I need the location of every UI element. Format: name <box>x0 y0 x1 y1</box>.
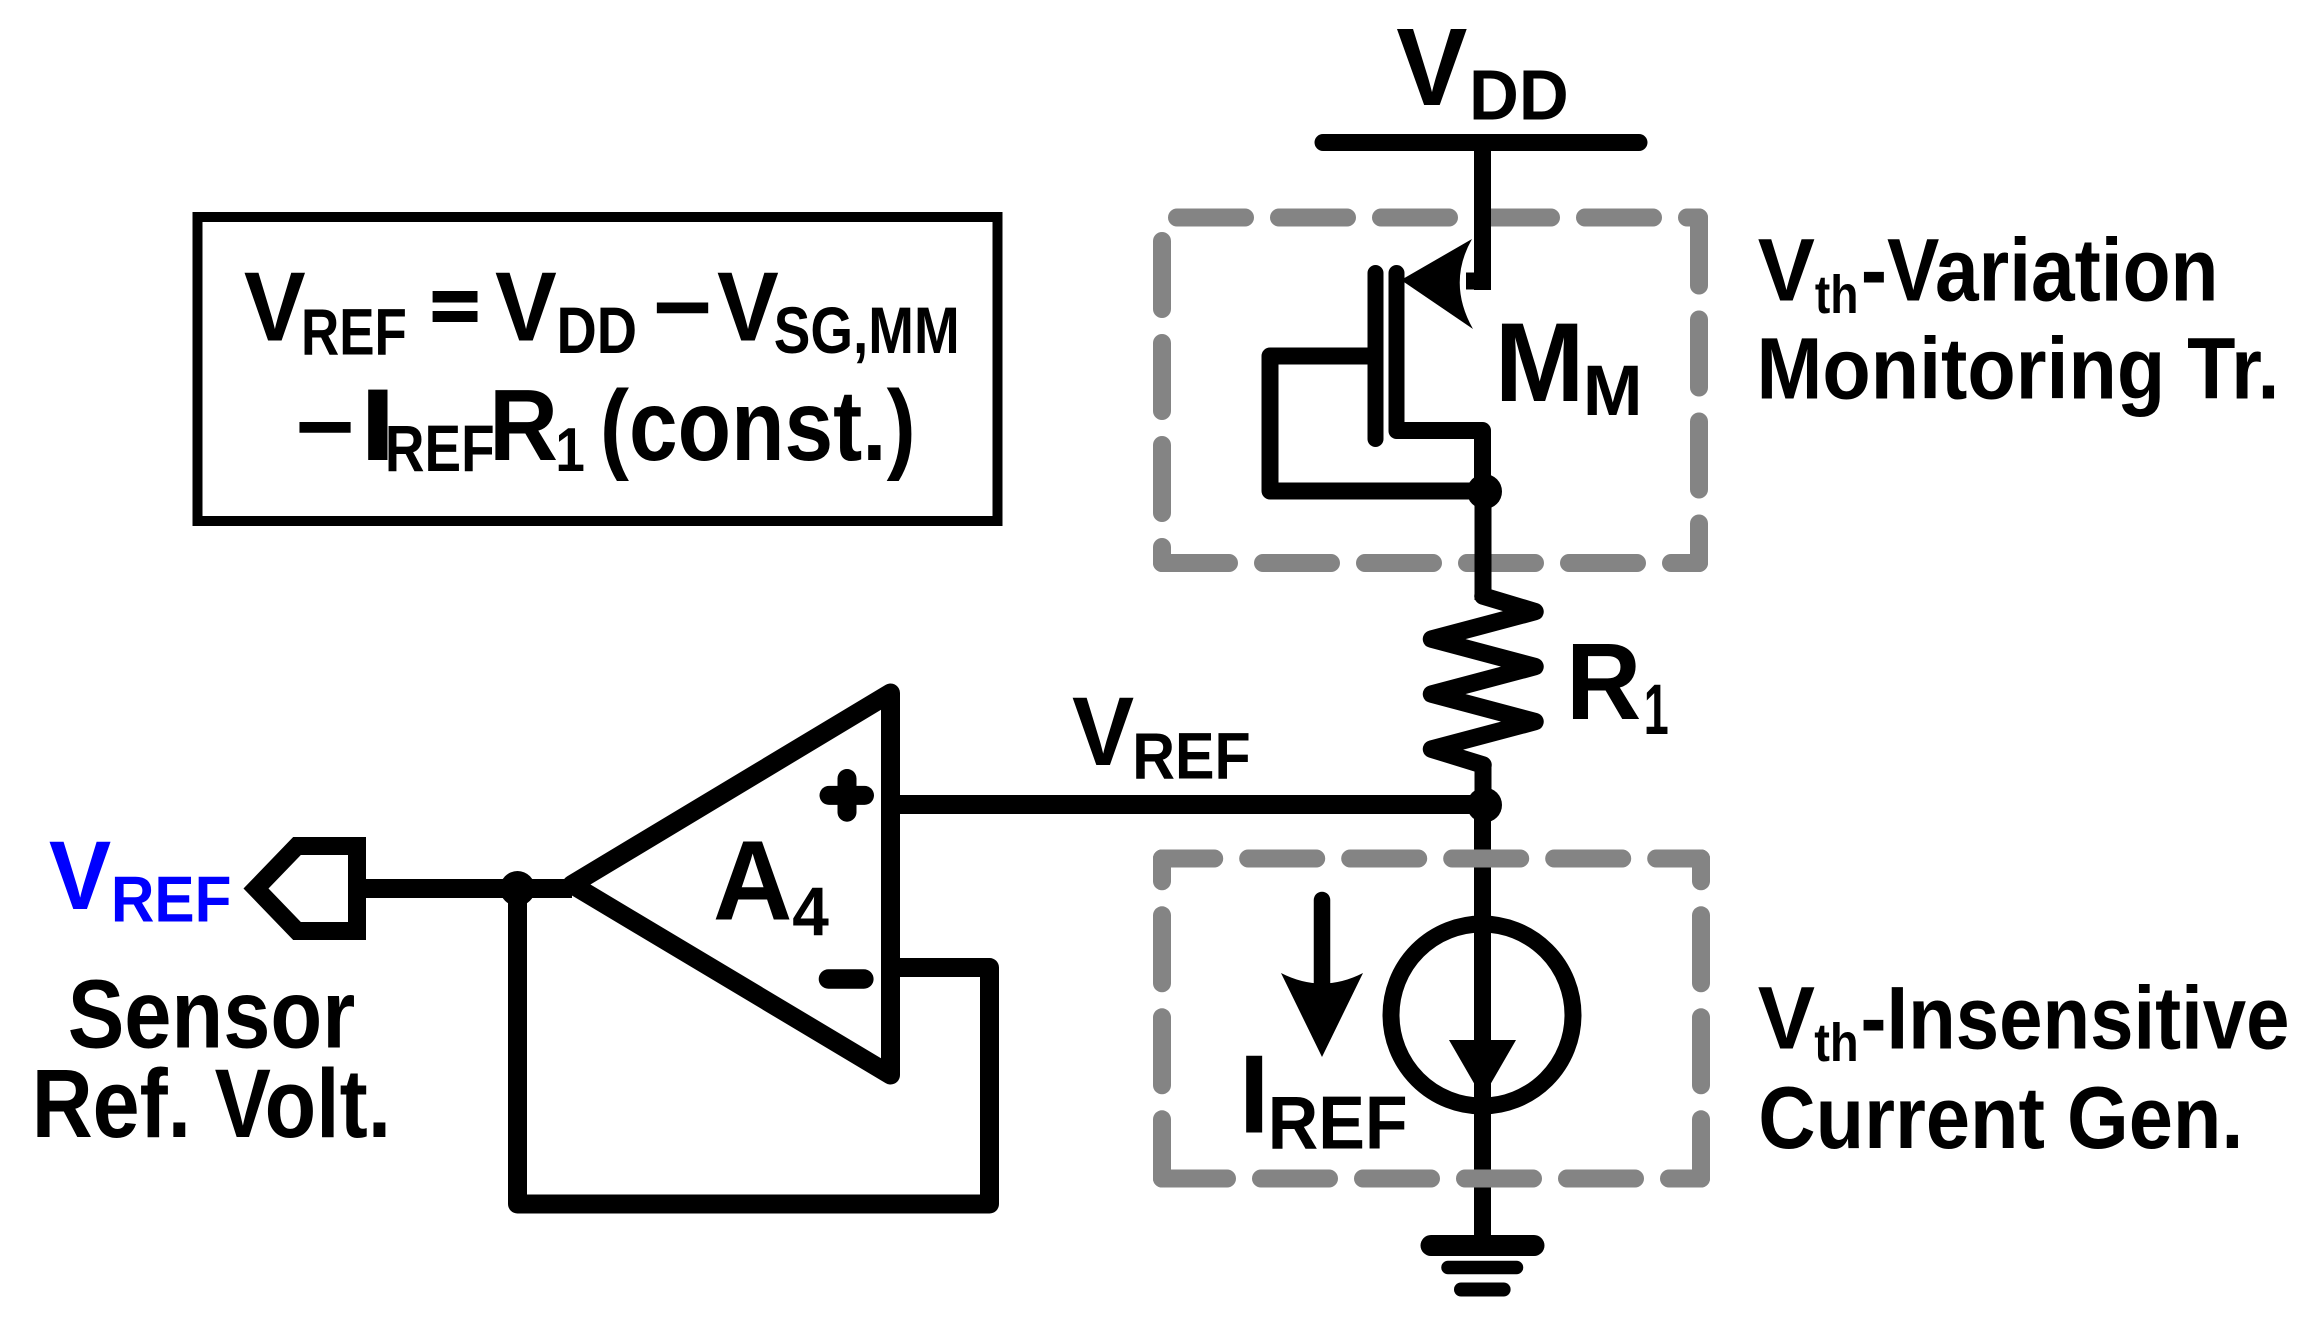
svg-text:-Variation: -Variation <box>1861 220 2219 320</box>
label Sensor Ref. Volt. <box>32 960 391 1158</box>
svg-text:SG,MM: SG,MM <box>774 293 960 367</box>
svg-text:−: − <box>295 371 355 481</box>
wire gate to drain loop <box>1270 356 1484 491</box>
wire VREF node to op-amp + input <box>890 795 1484 814</box>
svg-text:V: V <box>1072 677 1134 786</box>
svg-text:REF: REF <box>111 863 232 936</box>
wire resistor to VREF node <box>1475 763 1492 806</box>
wire feedback loop: - input to output junction <box>518 889 990 1205</box>
transistor MM channel bar <box>1389 273 1405 431</box>
op-amp - input mark <box>829 969 864 989</box>
svg-text:R: R <box>1566 621 1641 743</box>
op-amp + input mark <box>829 779 865 813</box>
svg-text:V: V <box>717 251 779 361</box>
svg-text:V: V <box>49 821 112 930</box>
VDD power rail <box>1323 134 1639 151</box>
svg-text:I: I <box>1239 1033 1270 1157</box>
svg-text:1: 1 <box>555 416 584 485</box>
svg-text:DD: DD <box>1469 57 1569 136</box>
svg-text:V: V <box>495 251 557 361</box>
label VREF (net name at node) <box>1072 677 1251 793</box>
transistor MM source arrow <box>1401 239 1473 329</box>
svg-text:th: th <box>1814 1013 1858 1073</box>
ground <box>1431 1246 1534 1290</box>
current source IREF circle <box>1391 924 1573 1106</box>
svg-text:V: V <box>1758 220 1815 320</box>
current source arrow <box>1449 1040 1516 1098</box>
svg-text:V: V <box>1396 6 1467 129</box>
transistor MM gate bar <box>1368 273 1384 439</box>
wire node to resistor <box>1475 491 1492 600</box>
svg-text:4: 4 <box>792 873 829 950</box>
svg-text:M: M <box>1583 352 1643 431</box>
svg-text:Monitoring Tr.: Monitoring Tr. <box>1757 321 2280 418</box>
dashed box: Vth-Variation Monitoring Tr. <box>1162 218 1699 564</box>
IREF direction arrowhead <box>1281 973 1363 1057</box>
svg-text:(const.): (const.) <box>600 370 916 482</box>
svg-text:REF: REF <box>385 411 495 485</box>
VDD label <box>1396 6 1568 136</box>
wire op-amp output to port <box>357 879 572 898</box>
node: drain-gate junction dot <box>1467 474 1502 509</box>
svg-text:th: th <box>1815 265 1859 325</box>
equation line 1: VREF = VDD - VSG,MM <box>244 251 960 368</box>
equation box <box>198 217 998 521</box>
svg-text:Current Gen.: Current Gen. <box>1758 1068 2243 1167</box>
label MM <box>1495 300 1643 431</box>
svg-text:R: R <box>489 370 558 482</box>
svg-text:M: M <box>1495 300 1585 425</box>
dashed box: Vth-Insensitive Current Gen. <box>1162 859 1701 1179</box>
svg-text:REF: REF <box>301 294 407 368</box>
wire VREF node down to current source <box>1474 805 1491 1245</box>
port symbol VREF output <box>256 846 357 931</box>
label IREF <box>1239 1033 1408 1165</box>
op-amp A4 triangle <box>572 693 891 1075</box>
label Vth-Variation Monitoring Tr. <box>1757 220 2280 418</box>
svg-text:-Insensitive: -Insensitive <box>1861 968 2290 1068</box>
svg-text:REF: REF <box>1132 719 1250 793</box>
wire source jog <box>1466 273 1483 290</box>
equation line 2: - IREF R1 (const.) <box>295 370 915 485</box>
svg-text:REF: REF <box>1268 1080 1408 1164</box>
label A4 <box>713 818 829 951</box>
svg-text:V: V <box>1758 968 1815 1068</box>
label VREF (blue, output port) <box>49 821 232 936</box>
svg-text:1: 1 <box>1644 671 1669 750</box>
svg-text:DD: DD <box>557 293 638 367</box>
IREF direction arrow shaft <box>1314 900 1331 990</box>
svg-text:−: − <box>653 251 713 361</box>
label Vth-Insensitive Current Gen. <box>1758 968 2290 1167</box>
node output junction dot <box>500 871 535 906</box>
transistor MM drain lead <box>1397 431 1483 492</box>
node VREF junction dot <box>1467 788 1502 823</box>
label R1 <box>1566 621 1669 750</box>
svg-text:A: A <box>713 818 793 944</box>
svg-text:Ref. Volt.: Ref. Volt. <box>32 1049 391 1158</box>
resistor R1 <box>1432 596 1536 765</box>
svg-text:V: V <box>244 251 306 361</box>
wire VDD rail to transistor source <box>1474 143 1491 291</box>
